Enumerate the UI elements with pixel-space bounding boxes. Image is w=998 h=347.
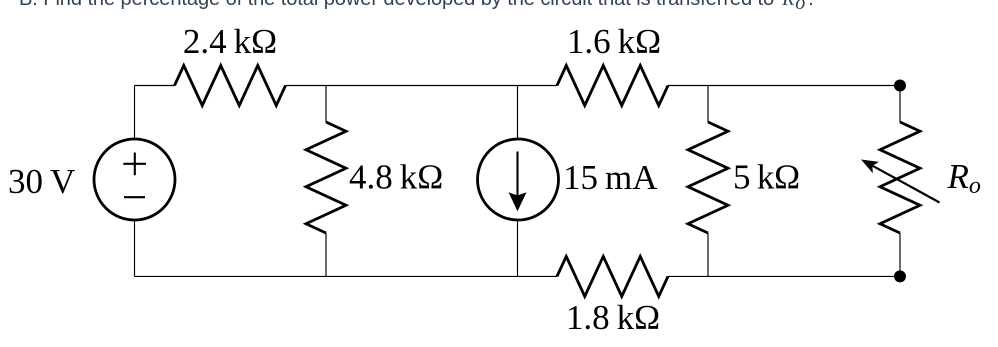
Ro variable-resistor arrow xyxy=(872,166,939,203)
wire: 4.8k branch lower xyxy=(325,233,327,276)
wire: current source branch lower xyxy=(517,220,519,276)
node dot bottom right xyxy=(894,270,906,282)
resistor 1.6k zigzag xyxy=(557,66,668,106)
wire: current source branch upper xyxy=(517,86,519,140)
wire: Ro branch upper xyxy=(899,86,901,123)
wire: top rail middle segment xyxy=(286,85,558,87)
wire: bottom rail left segment xyxy=(135,275,558,277)
svg-text:2.4 kΩ: 2.4 kΩ xyxy=(183,22,277,61)
svg-text:15 mA: 15 mA xyxy=(563,158,658,197)
node dot top right xyxy=(894,80,906,92)
wire: left branch lower xyxy=(134,220,136,276)
svg-text:30 V: 30 V xyxy=(8,162,75,201)
wire: left branch upper xyxy=(134,86,136,140)
resistor 5k vertical zigzag xyxy=(688,122,728,233)
resistor 1.8k zigzag xyxy=(557,256,668,296)
resistor R 2.4k zigzag xyxy=(175,66,286,106)
svg-text:5 kΩ: 5 kΩ xyxy=(733,158,800,197)
wire: 5k branch upper xyxy=(707,86,709,123)
wire: top rail left segment xyxy=(135,85,175,87)
svg-text:1.6 kΩ: 1.6 kΩ xyxy=(567,22,661,61)
wire: bottom rail right segment xyxy=(668,275,900,277)
svg-text:4.8 kΩ: 4.8 kΩ xyxy=(349,158,443,197)
current source arrowhead xyxy=(509,192,527,211)
current source arrow shaft xyxy=(516,152,518,197)
wire: Ro branch lower xyxy=(899,233,901,276)
wire: 4.8k branch upper xyxy=(325,86,327,123)
wire: 5k branch lower xyxy=(707,233,709,276)
plus symbol xyxy=(123,153,146,176)
svg-text:1.8 kΩ: 1.8 kΩ xyxy=(566,298,660,337)
svg-text:B. Find the percentage of the: B. Find the percentage of the total powe… xyxy=(19,0,814,14)
minus symbol xyxy=(124,196,145,198)
svg-text:Ro: Ro xyxy=(947,157,981,199)
voltage source V1 circle xyxy=(94,139,175,220)
resistor 4.8k vertical zigzag xyxy=(306,122,346,233)
resistor Ro vertical zigzag xyxy=(880,122,920,233)
wire: top rail right segment xyxy=(668,85,900,87)
current source I1 circle xyxy=(478,139,559,220)
